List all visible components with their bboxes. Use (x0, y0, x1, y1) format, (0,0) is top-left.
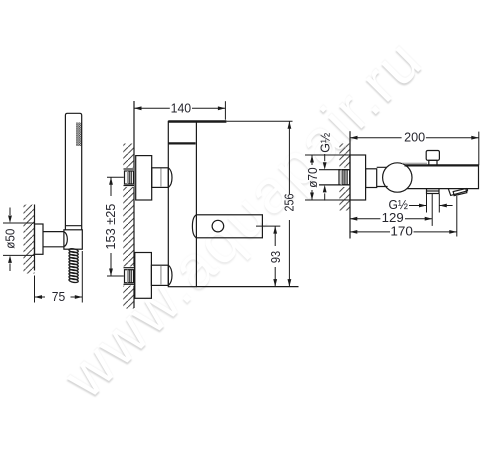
wall line middle (133, 101, 135, 308)
dim 256 (196, 121, 298, 286)
tube top gray highlight (402, 162, 427, 164)
lower arm joint gray line (160, 266, 162, 285)
dim 170 (350, 196, 457, 237)
dim 129 (350, 218, 432, 220)
upper wall plate (136, 156, 152, 200)
dim 140 (134, 101, 225, 120)
upper nipple (123, 168, 134, 187)
holder arc (64, 232, 67, 247)
aerator (448, 189, 467, 196)
svg-text:75: 75 (52, 290, 66, 304)
dim 200 (350, 132, 479, 166)
hose spring (69, 248, 79, 283)
diverter knob (426, 151, 439, 161)
dim 75 (35, 251, 83, 303)
svg-text:256: 256 (283, 194, 297, 212)
lower wall plate (135, 253, 152, 299)
spout circle (212, 220, 224, 232)
lower nipple (123, 266, 134, 285)
tube (405, 165, 479, 188)
svg-text:93: 93 (269, 251, 283, 263)
upper arm joint gray line (160, 169, 162, 187)
diverter neck (429, 160, 437, 165)
shower outlet (427, 189, 440, 194)
lever line (168, 120, 226, 122)
svg-text:ø70: ø70 (306, 167, 320, 188)
svg-text:153 ±25: 153 ±25 (104, 204, 118, 250)
arm right (366, 169, 377, 188)
dim 93 (274, 226, 276, 287)
wall hatch middle (123, 144, 134, 309)
nipple right (319, 168, 350, 188)
lower arm (151, 265, 168, 285)
upper arm (152, 168, 169, 188)
holder block (64, 230, 82, 249)
wall line right (349, 131, 351, 238)
body dark band (168, 142, 195, 144)
svg-text:G½: G½ (388, 198, 408, 212)
bracket plate (35, 224, 44, 254)
wall hatch right (339, 144, 350, 211)
svg-text:170: 170 (390, 224, 413, 238)
spout left cap arc (192, 215, 196, 238)
svg-text:ø50: ø50 (4, 229, 18, 249)
svg-text:200: 200 (404, 131, 425, 145)
tube connector lines (377, 167, 388, 186)
wall line left (34, 205, 36, 271)
dim G1/2 bottom (409, 194, 453, 226)
dim G1/2 left (324, 154, 326, 201)
spray dots (76, 123, 82, 147)
bracket arm (43, 232, 64, 247)
svg-text:140: 140 (171, 101, 192, 115)
spout (196, 215, 262, 238)
dim 153±25 (107, 177, 124, 276)
upper dome (168, 168, 172, 188)
knob circle (383, 163, 412, 192)
dim ø50 arrows (8, 216, 12, 263)
handle tube (65, 113, 81, 230)
flange (350, 155, 366, 200)
mixer body (168, 121, 196, 286)
svg-text:129: 129 (382, 211, 404, 225)
lower dome (168, 265, 172, 285)
tube top thick edge (405, 164, 479, 166)
wall hatch left (24, 205, 35, 274)
spout centre line to 93 (256, 225, 280, 227)
handle joint line (65, 225, 81, 227)
svg-text:G½: G½ (319, 132, 333, 152)
dim ø50 extension lines (3, 208, 35, 272)
dim ø70 (shared) (305, 155, 350, 200)
